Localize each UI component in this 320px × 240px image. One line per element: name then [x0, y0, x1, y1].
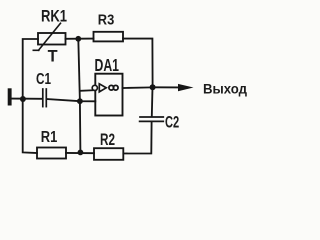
node junction left — [20, 96, 26, 102]
svg-text:C1: C1 — [36, 71, 51, 88]
wire left vertical lower — [23, 99, 37, 153]
svg-text:Выход: Выход — [203, 81, 247, 96]
op-amp triangle — [99, 84, 106, 92]
thermistor RK1 — [33, 23, 65, 50]
capacitor C2 — [140, 117, 164, 121]
op-amp U1 DA1 box — [95, 74, 122, 116]
wire middle vertical — [78, 39, 80, 153]
capacitor C1 — [43, 89, 47, 107]
svg-text:DA1: DA1 — [95, 55, 120, 75]
wire RK1 to R3 — [66, 38, 94, 40]
resistor R3 — [94, 32, 124, 42]
svg-text:R2: R2 — [100, 131, 115, 149]
wire node down to C2 — [151, 87, 154, 116]
wire input to C1 — [11, 98, 42, 100]
svg-text:C2: C2 — [165, 112, 179, 131]
resistor R1 — [37, 148, 66, 159]
node junction C1/opamp — [77, 98, 83, 104]
wire C2 to bottom corner — [123, 122, 151, 154]
wire inverting input branch — [81, 89, 93, 92]
op-amp infinity symbol — [109, 85, 118, 90]
wire R3 to output node — [123, 39, 153, 88]
node output junction — [150, 84, 156, 90]
output arrow head — [178, 84, 194, 91]
svg-text:R1: R1 — [41, 129, 58, 146]
svg-text:RK1: RK1 — [41, 7, 67, 26]
input terminal — [8, 88, 12, 105]
resistor R2 — [94, 148, 123, 160]
node junction bottom — [78, 150, 84, 156]
wire output to arrow — [155, 86, 179, 88]
wire op-amp output — [123, 86, 152, 89]
wire top-left branch — [23, 39, 38, 99]
svg-text:T: T — [48, 47, 58, 65]
wire R1 to R2 — [66, 152, 94, 154]
svg-text:R3: R3 — [98, 12, 115, 29]
wire C1 to op-amp input — [47, 99, 95, 101]
op-amp inverting bubble — [92, 85, 97, 90]
node junction top — [75, 36, 81, 42]
